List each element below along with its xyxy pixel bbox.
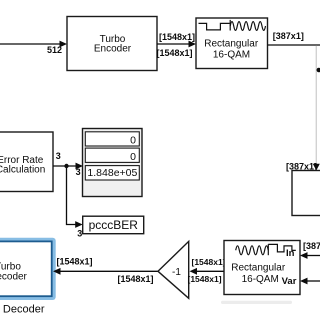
wire Turbo Encoder to 16-QAM modulator bbox=[157, 41, 196, 48]
arrowhead into unnamed block bbox=[313, 164, 320, 171]
wire gain to Turbo Decoder bbox=[53, 268, 158, 275]
svg-text:Rectangular: Rectangular bbox=[204, 39, 259, 50]
junction dot bbox=[64, 164, 68, 168]
svg-text:-1: -1 bbox=[172, 267, 181, 278]
block Turbo Decoder (selected, blue highlight, cropped at left) bbox=[0, 238, 56, 300]
block Display bbox=[83, 129, 143, 197]
wire Error Rate Calculation to Display bbox=[53, 163, 83, 170]
svg-text:Rectangular: Rectangular bbox=[231, 262, 286, 273]
svg-text:3: 3 bbox=[76, 167, 81, 177]
wire junction down to pcccBER bbox=[67, 166, 83, 228]
svg-text:Calculation: Calculation bbox=[0, 165, 45, 176]
svg-text:512: 512 bbox=[47, 45, 62, 55]
svg-text:0: 0 bbox=[130, 135, 136, 147]
junction dot bbox=[317, 68, 320, 73]
svg-text:3: 3 bbox=[56, 151, 61, 161]
svg-text:pcccBER: pcccBER bbox=[89, 218, 139, 232]
svg-text:[387x1]: [387x1] bbox=[303, 241, 320, 251]
wire demodulator to gain bbox=[190, 268, 225, 275]
svg-text:0: 0 bbox=[130, 151, 136, 163]
svg-text:3: 3 bbox=[77, 229, 82, 239]
svg-text:[1548x1]: [1548x1] bbox=[188, 274, 222, 284]
gain block -1 bbox=[158, 241, 189, 298]
svg-text:16-QAM: 16-QAM bbox=[242, 274, 279, 285]
wire modulator output to right edge bbox=[268, 44, 320, 46]
wire into demodulator Var port bbox=[300, 278, 320, 285]
svg-text:1.848e+05: 1.848e+05 bbox=[87, 167, 137, 179]
wire input to Turbo Encoder bbox=[0, 41, 67, 48]
svg-text:[1548x1]: [1548x1] bbox=[118, 274, 154, 284]
block Error Rate Calculation (cropped at left edge) bbox=[0, 132, 53, 192]
wire into demodulator In port bbox=[300, 252, 320, 259]
svg-text:In: In bbox=[286, 248, 295, 259]
svg-text:[1548x1]: [1548x1] bbox=[57, 256, 93, 266]
svg-text:Decoder: Decoder bbox=[0, 271, 28, 282]
svg-text:Turbo Decoder: Turbo Decoder bbox=[0, 303, 45, 315]
svg-text:Encoder: Encoder bbox=[94, 44, 132, 55]
svg-text:[387x1]: [387x1] bbox=[273, 31, 304, 41]
svg-text:[1548x1]: [1548x1] bbox=[192, 257, 226, 267]
block Rectangular 16-QAM Demodulator bbox=[224, 241, 300, 295]
svg-text:[1548x1]: [1548x1] bbox=[157, 48, 193, 58]
wire vertical branch down (faint) bbox=[315, 46, 317, 166]
svg-text:[1548x1]: [1548x1] bbox=[159, 32, 195, 42]
block Rectangular 16-QAM Modulator bbox=[196, 18, 268, 69]
unnamed block (cropped at right edge) bbox=[292, 171, 320, 216]
name label demodulator (faint ghost) bbox=[221, 301, 292, 304]
block Turbo Encoder bbox=[67, 17, 157, 71]
svg-text:16-QAM: 16-QAM bbox=[213, 49, 250, 60]
svg-text:Var: Var bbox=[282, 276, 297, 287]
block pcccBER (To Workspace) bbox=[83, 216, 144, 234]
